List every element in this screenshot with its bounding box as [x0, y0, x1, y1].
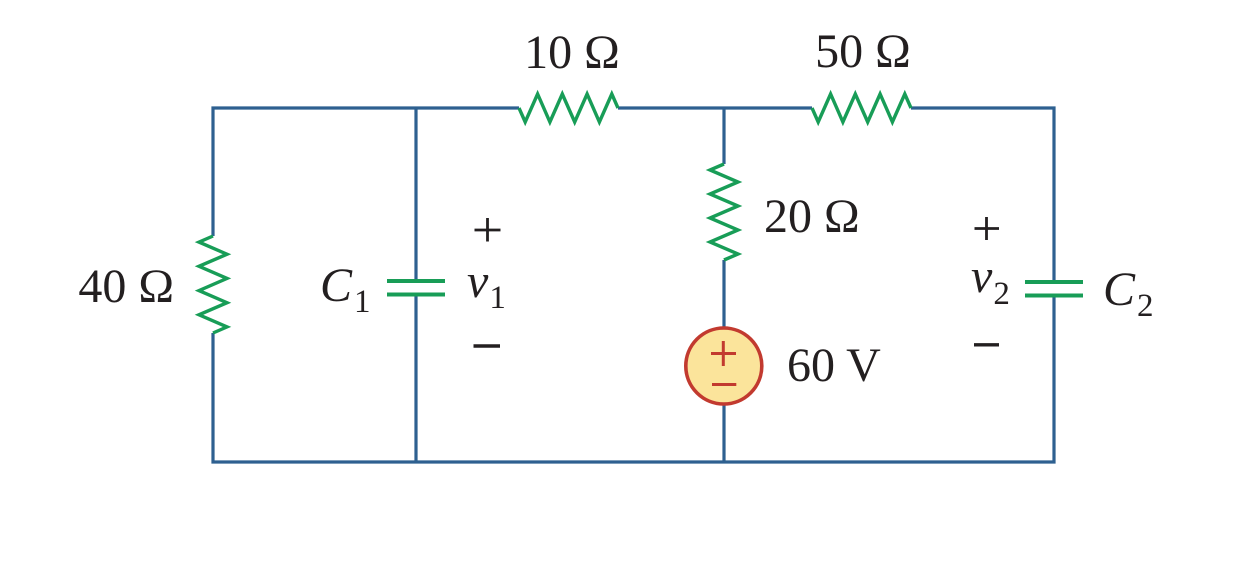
svg-text:60 V: 60 V [787, 339, 881, 392]
resistor 50 ohm [812, 94, 911, 122]
wire: middle branch between resistor and source [722, 260, 725, 330]
resistor 10 ohm [519, 94, 618, 122]
capacitor C2 [1025, 282, 1083, 296]
wire: top rail left segment [213, 108, 519, 236]
wire: C1 branch upper [414, 108, 417, 280]
voltage source 60V [686, 328, 762, 404]
svg-text:40 Ω: 40 Ω [78, 260, 174, 313]
wire: C1 branch lower [414, 296, 417, 462]
label plus v1 [475, 218, 501, 242]
wire: top rail middle segment [618, 106, 812, 109]
svg-text:10 Ω: 10 Ω [524, 26, 620, 79]
label plus v2 [975, 217, 1000, 240]
label minus v2 [974, 343, 999, 346]
svg-text:20 Ω: 20 Ω [764, 190, 860, 243]
resistor 20 ohm [710, 164, 738, 260]
label minus v1 [474, 344, 501, 347]
wire: middle branch lower stub [722, 403, 725, 462]
resistor 40 ohm [199, 236, 227, 333]
svg-text:50 Ω: 50 Ω [815, 25, 911, 78]
wire: bottom rail [213, 297, 1054, 462]
capacitor C1 [387, 281, 445, 295]
wire: top rail right segment [911, 108, 1054, 280]
wire: middle branch upper stub [722, 108, 725, 164]
